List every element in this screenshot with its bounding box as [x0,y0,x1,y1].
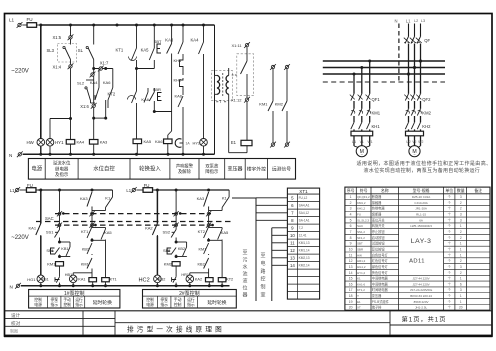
svg-text:延时轮换: 延时轮换 [93,299,112,306]
thick bottom border [4,335,493,338]
svg-text:1: 1 [460,253,462,257]
svg-text:KA4: KA4 [77,140,85,145]
svg-text:热继电器: 热继电器 [372,206,386,211]
svg-text:12: 12 [349,259,353,263]
svg-text:指示: 指示 [160,302,168,307]
svg-text:18: 18 [349,294,353,298]
svg-text:1: 1 [460,247,462,251]
svg-text:KA5: KA5 [104,230,112,235]
svg-text:电源: 电源 [31,165,42,173]
svg-text:SA-1A1: SA-1A1 [299,219,310,223]
svg-text:3: 3 [460,218,462,222]
wire branch V6 [171,25,173,44]
svg-text:12,41: 12,41 [299,234,307,238]
lamp HC2 [154,275,162,283]
svg-text:SBR: SBR [357,247,363,251]
wire branch V2 [70,25,72,36]
svg-text:19: 19 [349,300,353,304]
svg-text:KA4: KA4 [191,38,200,43]
svg-text:SBT: SBT [357,242,363,246]
junction node [92,67,95,70]
wire bus pump block 2 [155,189,230,191]
svg-text:水位自控: 水位自控 [93,165,115,173]
svg-text:KT1: KT1 [116,47,124,52]
svg-text:~220V: ~220V [11,235,29,241]
svg-text:障指示: 障指示 [205,168,219,175]
contact KB2 parallel [176,241,187,243]
svg-text:2: 2 [460,236,462,240]
svg-text:复位按钮: 复位按钮 [372,246,386,251]
svg-text:10: 10 [290,233,295,238]
wire power bus N dashed [323,81,445,83]
svg-text:KM2: KM2 [164,262,173,267]
svg-text:SF1,2: SF1,2 [357,236,365,240]
svg-text:SL: SL [78,48,84,53]
wire power bus 3 [323,73,445,75]
svg-text:排污型一次接线原理图: 排污型一次接线原理图 [127,325,225,334]
wire join 1 [92,239,106,241]
svg-text:XT1: XT1 [299,189,308,194]
svg-text:X1:4: X1:4 [53,64,62,69]
svg-text:L1: L1 [406,19,411,24]
svg-text:KM2: KM2 [422,110,431,115]
svg-text:17: 17 [349,288,353,292]
table 2# pump control [143,290,237,309]
svg-text:KB2: KB2 [158,278,165,282]
selector circles branch SS1 [59,190,61,212]
svg-text:JS7-2A 220V60s: JS7-2A 220V60s [410,288,433,292]
svg-text:3: 3 [460,195,462,199]
svg-text:停泵: 停泵 [50,297,58,302]
svg-text:LW5-15D0404/3: LW5-15D0404/3 [410,224,432,228]
svg-text:KA5: KA5 [144,139,152,144]
svg-text:电源: 电源 [34,302,42,307]
svg-text:1A: 1A [186,142,191,146]
svg-text:电: 电 [260,260,265,267]
svg-text:KT1: KT1 [110,278,117,282]
svg-text:E1: E1 [231,140,237,145]
svg-text:X1:5: X1:5 [53,35,62,40]
svg-text:名称: 名称 [381,188,389,193]
svg-text:20: 20 [459,306,463,310]
svg-text:KA1-6: KA1-6 [357,282,365,286]
svg-text:KT1: KT1 [81,229,89,234]
svg-text:KM2,13: KM2,13 [299,256,310,260]
breaker QF2 + contactor KM2 + thermal KH2 + motor M2 branch [407,73,410,76]
svg-text:断路器: 断路器 [372,194,382,199]
svg-text:备注: 备注 [474,188,482,193]
svg-text:X1:12: X1:12 [231,97,242,102]
svg-text:停泵: 停泵 [160,297,168,302]
svg-text:KB2: KB2 [178,247,185,251]
svg-text:KH2: KH2 [422,124,431,129]
contact KA1 auto [40,190,42,224]
wire transformer secondary to N [214,94,216,154]
svg-text:QF: QF [424,38,430,43]
svg-text:KA5: KA5 [141,47,150,52]
svg-text:KM2: KM2 [275,101,284,106]
title block [5,310,493,312]
lamp HG1 [37,275,45,283]
svg-text:3: 3 [350,207,352,211]
svg-text:T: T [219,99,222,104]
svg-text:HW: HW [27,140,35,145]
coil KT1 [105,240,107,277]
svg-text:KB1: KB1 [42,278,49,282]
svg-text:KM1,2: KM1,2 [357,201,366,205]
wire branch V1 [40,25,42,139]
svg-text:KM1: KM1 [259,101,268,106]
svg-text:CJ10-20A: CJ10-20A [414,201,427,205]
svg-text:控制: 控制 [174,302,182,307]
svg-text:6: 6 [350,224,352,228]
svg-text:KM1: KM1 [372,110,381,115]
svg-text:数量: 数量 [457,188,465,193]
svg-text:2: 2 [460,230,462,234]
svg-text:13: 13 [349,265,353,269]
coil KA3 [89,140,98,145]
svg-text:液: 液 [242,277,247,284]
svg-text:HG1,2: HG1,2 [357,265,366,269]
svg-text:轮换投入: 轮换投入 [139,165,161,173]
svg-text:10: 10 [349,247,353,251]
table 1# pump control [29,290,120,309]
svg-text:远测信号: 远测信号 [272,165,291,172]
svg-text:红色信号灯: 红色信号灯 [372,258,389,263]
svg-text:85K8 220V: 85K8 220V [414,300,429,304]
wire bus pump block 1 [38,189,113,191]
svg-text:KA4: KA4 [90,80,98,85]
selector circles branch SS2 [175,190,177,212]
svg-text:HY1: HY1 [55,140,64,145]
svg-text:指示: 指示 [50,302,58,307]
svg-text:HR1,2: HR1,2 [357,259,366,263]
wire join to KA6 coil line [154,111,171,113]
wire X1:7 sub-branch [94,68,113,70]
svg-text:BK63-63 220.24: BK63-63 220.24 [410,294,432,298]
svg-text:控制: 控制 [63,302,71,307]
svg-text:W2: W2 [418,140,423,144]
svg-text:KT2: KT2 [198,229,206,234]
selector switch SAC dashed row 2 [36,221,232,223]
svg-text:U2: U2 [406,140,410,144]
svg-text:延时轮换: 延时轮换 [207,299,226,306]
svg-text:KA2: KA2 [145,225,153,230]
terminal X1:8 [91,73,94,76]
svg-text:SA4,12: SA4,12 [299,211,310,215]
svg-text:16: 16 [349,282,353,286]
svg-text:SL2: SL2 [77,81,85,86]
bill of materials table [345,187,490,310]
svg-text:型号·规格: 型号·规格 [413,188,430,193]
svg-text:位: 位 [242,285,247,292]
svg-text:1: 1 [350,195,352,199]
svg-text:器: 器 [242,293,247,299]
svg-text:3: 3 [460,265,462,269]
svg-text:KB1: KB1 [61,247,68,251]
function label table [28,159,295,180]
breaker QF tie bar [404,42,421,44]
svg-text:KT2: KT2 [108,91,116,96]
svg-text:FU: FU [357,213,361,217]
svg-text:KH1,2: KH1,2 [357,207,365,211]
svg-text:路: 路 [260,268,265,275]
svg-text:1: 1 [460,277,462,281]
svg-text:室: 室 [260,292,265,299]
svg-text:及指示: 及指示 [55,171,69,178]
svg-text:制: 制 [260,284,265,291]
contact KA2 auto [156,190,158,224]
svg-text:1: 1 [460,300,462,304]
svg-text:7,2: 7,2 [299,226,304,230]
svg-text:SAC: SAC [45,216,54,221]
svg-text:指示: 指示 [187,302,195,307]
svg-text:PS-B式组件: PS-B式组件 [372,299,390,304]
svg-text:KA3: KA3 [165,38,174,43]
wire branch V3 [93,25,95,45]
svg-text:HG1: HG1 [27,277,36,282]
svg-text:KA6: KA6 [155,139,163,144]
svg-text:SS1,2: SS1,2 [357,230,365,234]
wires to XT1 rows 5-8 [232,197,256,199]
wire remote signal KM2 [285,65,288,68]
svg-text:11: 11 [349,253,353,257]
svg-text:2: 2 [460,207,462,211]
svg-text:时间继电器: 时间继电器 [372,287,389,292]
svg-text:水: 水 [242,263,247,270]
svg-text:KM1,13: KM1,13 [299,241,310,245]
svg-text:3: 3 [460,288,462,292]
svg-text:单位: 单位 [445,188,453,193]
svg-text:~220V: ~220V [11,69,29,75]
svg-text:污: 污 [242,256,247,263]
svg-text:中间继电器: 中间继电器 [372,281,389,286]
svg-text:LAY-3: LAY-3 [411,238,432,245]
svg-text:手动: 手动 [63,297,71,302]
svg-text:KA2: KA2 [195,278,202,282]
lamp HB1 branch [73,272,92,274]
svg-text:JR1-20A: JR1-20A [415,207,427,211]
svg-text:14: 14 [290,263,295,268]
svg-text:HC2: HC2 [139,277,150,283]
svg-text:L1: L1 [9,18,15,23]
svg-text:KA5: KA5 [221,230,229,235]
svg-text:DZ5-20 C32A: DZ5-20 C32A [412,195,430,199]
svg-text:X1:7: X1:7 [100,60,109,65]
svg-text:1: 1 [460,294,462,298]
wire power bus 1 [323,60,445,62]
coil KA5 [133,139,142,144]
svg-text:控制: 控制 [34,297,42,302]
svg-text:符号: 符号 [360,188,368,193]
svg-text:L1: L1 [126,188,131,193]
wire joining sub-branch [94,117,106,119]
svg-text:14: 14 [349,271,353,275]
svg-text:适用说明，本图适用于液位检修手拉和正常工作是由高、: 适用说明，本图适用于液位检修手拉和正常工作是由高、 [357,160,492,167]
svg-text:KT2: KT2 [226,278,233,282]
svg-text:N: N [395,19,398,24]
svg-text:SA4,A1: SA4,A1 [299,204,310,208]
svg-text:X1:6: X1:6 [80,104,89,109]
svg-text:运行: 运行 [187,297,195,302]
selector switch SAC dashed row 1 [55,213,211,215]
svg-text:HW: HW [357,253,362,257]
svg-text:K1: K1 [357,277,361,281]
svg-text:楼宇外控: 楼宇外控 [247,165,266,172]
svg-text:SL,SL2,3: SL,SL2,3 [357,218,369,222]
svg-text:控制: 控制 [146,297,154,302]
selector switch SAC dashed row 3 [55,224,213,226]
svg-text:试验按钮: 试验按钮 [372,241,386,246]
svg-text:端子排: 端子排 [372,305,382,310]
svg-text:KA6: KA6 [103,80,111,85]
svg-text:转换开关: 转换开关 [372,223,386,228]
svg-text:KT1,2: KT1,2 [357,288,365,292]
svg-text:W1: W1 [368,140,373,144]
svg-text:20: 20 [349,306,353,310]
svg-text:手动: 手动 [174,297,182,302]
svg-text:第1页，共1页: 第1页，共1页 [402,316,447,324]
svg-text:停止按钮: 停止按钮 [372,229,386,234]
svg-text:L1: L1 [10,188,15,193]
svg-text:电源: 电源 [146,302,154,307]
svg-text:U1: U1 [352,140,356,144]
svg-text:KA1: KA1 [29,225,37,230]
svg-text:QF2: QF2 [422,97,431,102]
svg-text:KA3: KA3 [197,196,205,201]
svg-text:接触器: 接触器 [372,200,382,205]
transformer T [214,25,216,75]
wire join 2 [209,239,223,241]
wire remote signal KM1 [271,65,274,68]
wires to XT1 rows 9-14 [271,228,273,301]
bell HA [182,108,184,154]
svg-text:L2: L2 [414,19,418,23]
svg-text:5: 5 [350,218,352,222]
svg-text:E1: E1 [357,300,361,304]
svg-text:HY1,2: HY1,2 [357,271,365,275]
wire branch V4 [136,25,138,48]
svg-text:2: 2 [460,259,462,263]
svg-text:QF1: QF1 [372,97,381,102]
coil KT2 [221,240,223,277]
svg-text:至: 至 [260,253,265,259]
svg-text:1#泵控制: 1#泵控制 [64,290,85,297]
svg-text:XT: XT [357,306,361,310]
svg-text:熔断器: 熔断器 [372,212,382,217]
svg-text:6: 6 [460,282,462,286]
svg-text:2: 2 [460,201,462,205]
wire HY1 branch [50,118,71,120]
svg-text:液位开关: 液位开关 [372,217,386,222]
svg-text:SL3: SL3 [47,48,55,53]
svg-text:KA1: KA1 [78,278,85,282]
svg-text:11: 11 [290,241,295,246]
svg-text:X1:11: X1:11 [232,43,243,48]
svg-text:V1: V1 [360,140,364,144]
svg-text:KB2: KB2 [198,262,205,266]
svg-text:SBT: SBT [154,39,162,44]
svg-text:JH1-2.5L: JH1-2.5L [415,306,428,310]
svg-text:KM1,14: KM1,14 [299,249,310,253]
svg-text:KA3: KA3 [100,140,108,145]
svg-text:FU: FU [27,17,33,22]
svg-text:N: N [9,153,12,158]
svg-text:9: 9 [350,242,352,246]
svg-text:1: 1 [460,224,462,228]
svg-text:QF,QF1,2: QF,QF1,2 [357,195,370,199]
contact KB1 parallel [60,241,71,243]
svg-text:至: 至 [242,250,247,256]
svg-text:KM1: KM1 [47,262,56,267]
wire N bus top section [23,153,215,155]
svg-text:黄色信号灯: 黄色信号灯 [372,270,389,275]
svg-text:启动按钮: 启动按钮 [372,235,386,240]
svg-text:RL1-15: RL1-15 [416,213,426,217]
svg-text:设计: 设计 [11,312,21,319]
svg-text:KA6: KA6 [175,94,183,99]
svg-text:L3: L3 [421,19,425,23]
lamp HY fault [200,139,208,147]
svg-text:T: T [357,294,359,298]
svg-text:KM2,14: KM2,14 [299,264,310,268]
svg-text:KH1: KH1 [372,124,381,129]
svg-text:JZ7-44 220V: JZ7-44 220V [413,282,430,286]
wire branch V5 [153,25,155,48]
svg-text:12: 12 [290,248,295,253]
svg-text:8: 8 [350,236,352,240]
coil E1 [246,102,248,140]
svg-text:制图: 制图 [10,328,18,334]
svg-text:指示: 指示 [75,302,83,307]
svg-text:1: 1 [460,242,462,246]
coil KA4 [66,140,75,145]
svg-text:2#泵控制: 2#泵控制 [179,290,200,297]
svg-text:变压器: 变压器 [372,293,382,298]
svg-text:4: 4 [350,213,352,217]
svg-text:7: 7 [350,230,352,234]
svg-text:中间继电器: 中间继电器 [372,276,389,281]
junction dots on selector rows [62,212,65,215]
svg-text:SAC: SAC [357,224,363,228]
svg-text:13: 13 [290,256,295,261]
svg-text:SS1: SS1 [46,229,54,234]
svg-text:KM1: KM1 [81,262,89,266]
svg-text:运行: 运行 [75,297,83,302]
svg-text:2: 2 [350,201,352,205]
wire branch V8 fault lamp [203,25,205,42]
svg-text:V2: V2 [412,140,416,144]
svg-text:N: N [10,284,13,289]
svg-text:池: 池 [242,270,247,277]
lamp HY1 [46,139,54,147]
svg-text:6A: 6A [419,218,423,222]
svg-text:及解除: 及解除 [178,168,192,175]
svg-text:变压器: 变压器 [227,166,242,173]
svg-text:液水位实现自动控制，两泵互为备用自动轮换运行: 液水位实现自动控制，两泵互为备用自动轮换运行 [364,167,481,174]
svg-text:白色信号灯: 白色信号灯 [372,252,389,257]
svg-text:序号: 序号 [347,188,355,193]
junction node [69,117,72,120]
wire branch V7 alarm chain [182,25,184,42]
svg-text:校对: 校对 [11,320,21,327]
svg-text:SS2: SS2 [163,229,171,234]
svg-text:控: 控 [260,276,265,283]
svg-text:JZ7-44 220V: JZ7-44 220V [413,277,430,281]
terminal block table XT1 [287,188,319,299]
svg-text:绿色信号灯: 绿色信号灯 [372,264,389,269]
svg-text:KA3: KA3 [80,196,88,201]
